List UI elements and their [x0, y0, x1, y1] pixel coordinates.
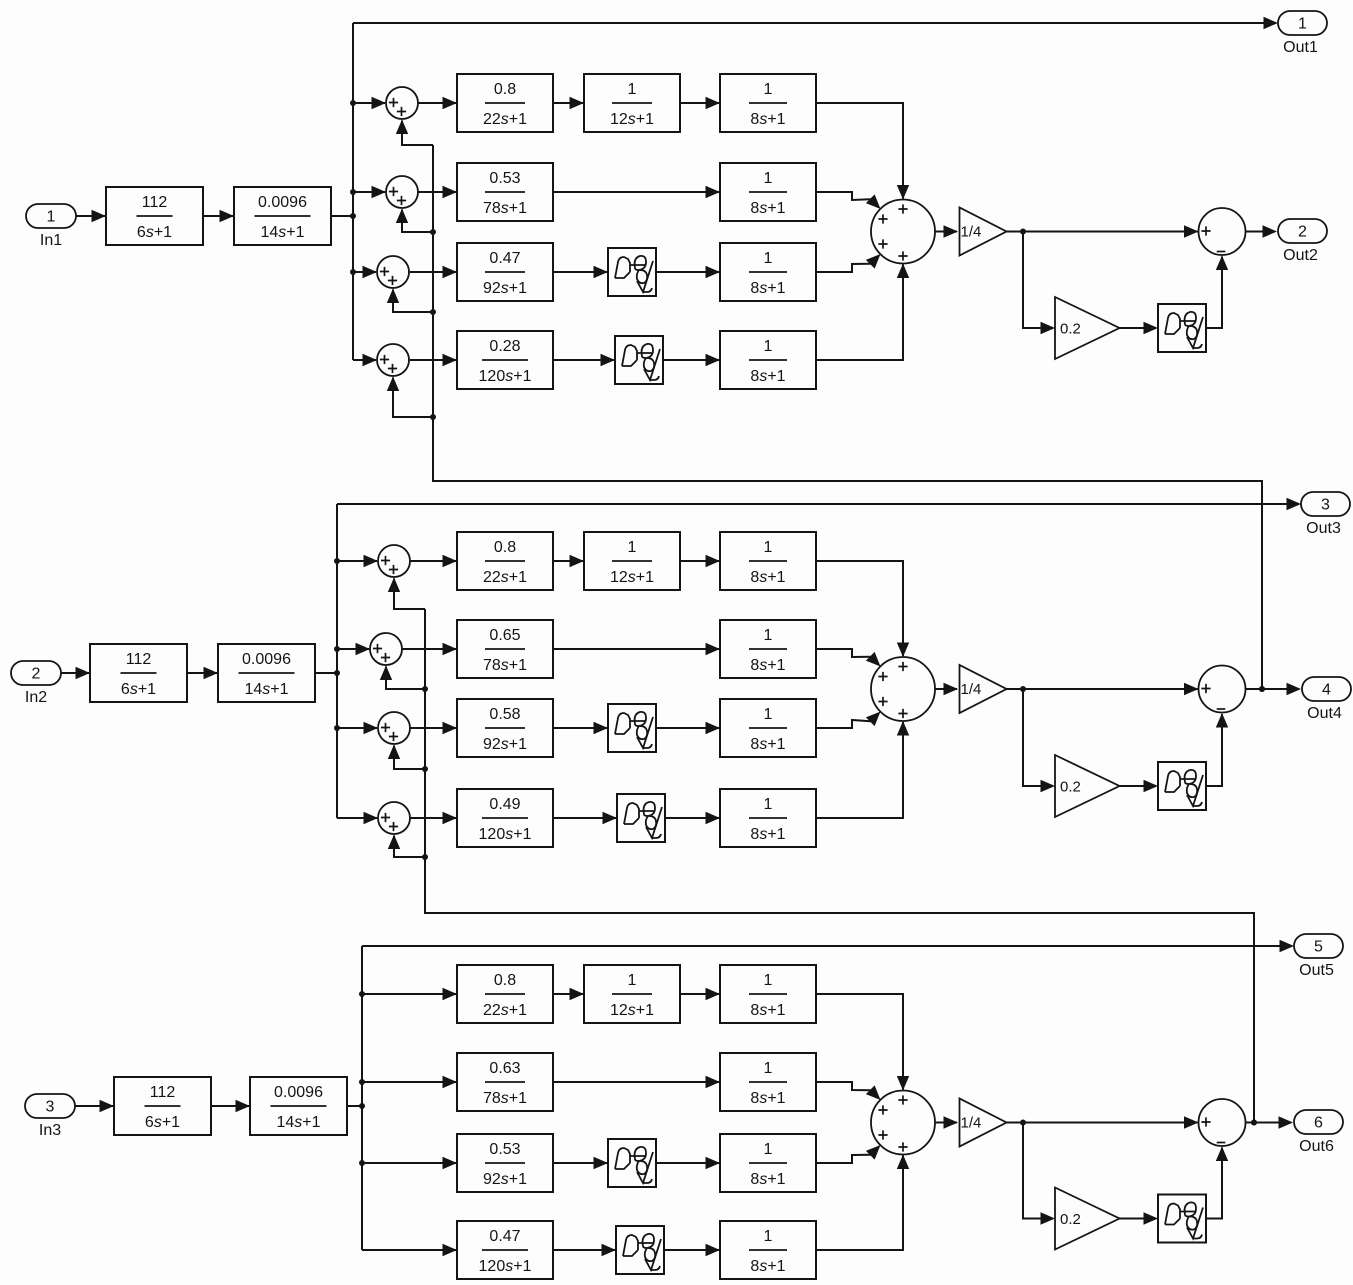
gain 1/4 [1] [960, 208, 1007, 256]
svg-text:0.47: 0.47 [489, 1228, 520, 1245]
svg-text:1: 1 [1298, 16, 1307, 33]
transfer function 1/(12s+1) [1] [584, 74, 680, 132]
wire [553, 722, 608, 734]
junction [1251, 1120, 1257, 1126]
svg-text:0.8: 0.8 [494, 539, 516, 556]
transfer function 1/(8s+1) [3] [720, 1053, 816, 1111]
svg-text:Out6: Out6 [1299, 1138, 1334, 1155]
saturation [1.4] [615, 336, 663, 384]
saturation out [3] [1158, 1195, 1206, 1243]
svg-text:1: 1 [764, 1060, 773, 1077]
wire [362, 1076, 457, 1088]
wire [402, 643, 457, 655]
junction [359, 1160, 365, 1166]
svg-text:1: 1 [47, 209, 56, 226]
transfer function 1/(8s+1) [2] [720, 699, 816, 757]
wire [353, 266, 377, 278]
svg-text:6s+1: 6s+1 [137, 224, 172, 241]
output sum [1] [1199, 208, 1246, 255]
wire [418, 97, 457, 109]
wire [680, 555, 720, 567]
transfer function 0.49/(120s+1) [2] [457, 789, 553, 847]
output port Out2 [1278, 219, 1327, 264]
junction [422, 854, 428, 860]
svg-text:120s+1: 120s+1 [479, 368, 532, 385]
transfer function 0.53/(78s+1) [1] [457, 163, 553, 221]
sum [1.2] [386, 176, 418, 208]
output sum [2] [1199, 666, 1246, 713]
wire [388, 745, 425, 770]
saturation [3.4] [616, 1226, 664, 1274]
transfer function 0.58/(92s+1) [2] [457, 699, 553, 757]
svg-text:92s+1: 92s+1 [483, 1171, 527, 1188]
svg-text:0.8: 0.8 [494, 972, 516, 989]
wire [387, 289, 433, 313]
svg-text:In1: In1 [40, 232, 62, 249]
svg-text:0.58: 0.58 [489, 706, 520, 723]
wire [388, 835, 425, 858]
sum [2.4] [378, 802, 410, 834]
wire [816, 192, 885, 213]
output port Out5 [1294, 934, 1343, 979]
svg-text:0.63: 0.63 [489, 1060, 520, 1077]
transfer function 1/(8s+1) [2] [720, 789, 816, 847]
wire [1023, 1123, 1055, 1225]
sum of paths [3] [871, 1091, 935, 1155]
transfer function 0.53/(92s+1) [3] [457, 1134, 553, 1192]
wire [410, 555, 457, 567]
junction [334, 646, 340, 652]
saturation [2.3] [608, 704, 656, 752]
wire [203, 210, 234, 222]
wire [553, 643, 720, 655]
sum [1.4] [377, 344, 409, 376]
output port Out3 [1301, 492, 1350, 537]
wire [935, 225, 958, 237]
wire [935, 683, 958, 695]
junction [359, 1103, 365, 1109]
wire [353, 186, 386, 198]
svg-text:0.0096: 0.0096 [242, 651, 291, 668]
wire [664, 1244, 720, 1256]
svg-text:1: 1 [764, 706, 773, 723]
gain 0.2 [1] [1055, 297, 1120, 359]
wire [816, 721, 909, 818]
wire [553, 266, 608, 278]
svg-text:1/4: 1/4 [961, 1115, 982, 1132]
svg-text:78s+1: 78s+1 [483, 1090, 527, 1107]
junction [1259, 686, 1265, 692]
svg-text:In3: In3 [39, 1122, 61, 1139]
output sum [3] [1199, 1099, 1246, 1146]
junction [430, 229, 436, 235]
svg-text:1: 1 [764, 170, 773, 187]
wire [337, 498, 1301, 510]
transfer function 0.0096/(14s+1) [2] [218, 644, 315, 702]
svg-text:0.8: 0.8 [494, 81, 516, 98]
wire [1007, 1116, 1199, 1128]
wire [553, 1157, 608, 1169]
svg-text:8s+1: 8s+1 [750, 200, 785, 217]
wire [680, 988, 720, 1000]
svg-text:1: 1 [764, 81, 773, 98]
svg-text:1: 1 [628, 539, 637, 556]
svg-text:Out3: Out3 [1306, 520, 1341, 537]
svg-text:120s+1: 120s+1 [479, 826, 532, 843]
svg-text:8s+1: 8s+1 [750, 368, 785, 385]
wire [1120, 1212, 1159, 1224]
svg-text:8s+1: 8s+1 [750, 111, 785, 128]
wire [331, 215, 353, 217]
svg-text:Out4: Out4 [1307, 705, 1342, 722]
wire [816, 103, 909, 200]
svg-text:Out5: Out5 [1299, 962, 1334, 979]
sum of paths [2] [871, 657, 935, 721]
svg-text:2: 2 [32, 666, 41, 683]
wire [353, 97, 386, 109]
wire [1206, 256, 1228, 329]
transfer function 0.0096/(14s+1) [3] [250, 1077, 347, 1135]
svg-text:6s+1: 6s+1 [145, 1114, 180, 1131]
wire [76, 210, 106, 222]
wire [388, 578, 425, 610]
output port Out6 [1294, 1110, 1343, 1155]
input port In3 [25, 1094, 75, 1139]
wire [1246, 683, 1302, 695]
wire [935, 1116, 958, 1128]
wire [1206, 713, 1228, 786]
junction [1020, 1120, 1026, 1126]
svg-text:22s+1: 22s+1 [483, 569, 527, 586]
transfer function 112/(6s+1) [3] [114, 1077, 211, 1135]
svg-text:78s+1: 78s+1 [483, 657, 527, 674]
transfer function 0.8/(22s+1) [3] [457, 965, 553, 1023]
wire [816, 264, 909, 361]
svg-text:1: 1 [764, 972, 773, 989]
wire [553, 97, 584, 109]
saturation [1.3] [608, 248, 656, 296]
transfer function 1/(8s+1) [3] [720, 965, 816, 1023]
transfer function 0.8/(22s+1) [1] [457, 74, 553, 132]
sum [2.1] [378, 545, 410, 577]
junction [1251, 1120, 1257, 1126]
wire [353, 354, 377, 366]
svg-text:2: 2 [1298, 224, 1307, 241]
wire [387, 377, 433, 418]
svg-text:112: 112 [126, 651, 152, 668]
transfer function 0.0096/(14s+1) [1] [234, 187, 331, 245]
svg-text:8s+1: 8s+1 [750, 569, 785, 586]
svg-text:0.2: 0.2 [1060, 779, 1081, 796]
svg-text:92s+1: 92s+1 [483, 280, 527, 297]
sum [1.1] [386, 87, 418, 119]
svg-text:1: 1 [764, 539, 773, 556]
junction [422, 766, 428, 772]
wire [362, 1157, 457, 1169]
svg-text:1: 1 [628, 81, 637, 98]
transfer function 0.65/(78s+1) [2] [457, 620, 553, 678]
wire [337, 555, 378, 567]
wire [433, 145, 1262, 689]
svg-text:1: 1 [628, 972, 637, 989]
junction [350, 100, 356, 106]
saturation [2.4] [617, 794, 665, 842]
wire [1246, 1116, 1294, 1128]
wire [656, 722, 720, 734]
output port Out4 [1302, 677, 1351, 722]
transfer function 1/(12s+1) [3] [584, 965, 680, 1023]
wire [680, 97, 720, 109]
wire [362, 1244, 457, 1256]
svg-text:1: 1 [764, 627, 773, 644]
svg-text:1: 1 [764, 1141, 773, 1158]
svg-text:22s+1: 22s+1 [483, 1002, 527, 1019]
svg-text:0.2: 0.2 [1060, 1211, 1081, 1228]
wire [816, 561, 909, 657]
transfer function 112/(6s+1) [1] [106, 187, 203, 245]
junction [334, 670, 340, 676]
gain 1/4 [2] [960, 665, 1007, 713]
wire [663, 354, 720, 366]
wire [553, 988, 584, 1000]
wire [409, 266, 457, 278]
wire [656, 266, 720, 278]
svg-text:0.28: 0.28 [489, 338, 520, 355]
wire [337, 722, 378, 734]
svg-text:8s+1: 8s+1 [750, 1002, 785, 1019]
svg-text:5: 5 [1314, 939, 1323, 956]
svg-text:14s+1: 14s+1 [260, 224, 304, 241]
input port In2 [11, 661, 61, 706]
junction [430, 309, 436, 315]
svg-text:0.0096: 0.0096 [258, 194, 307, 211]
wire [553, 1244, 616, 1256]
junction [1259, 686, 1265, 692]
transfer function 1/(8s+1) [1] [720, 74, 816, 132]
wire [347, 1105, 362, 1107]
wire [656, 1157, 720, 1169]
svg-text:1: 1 [764, 796, 773, 813]
wire [1206, 1147, 1228, 1219]
wire [816, 994, 909, 1091]
svg-text:0.53: 0.53 [489, 1141, 520, 1158]
wire [418, 186, 457, 198]
wire [553, 186, 720, 198]
svg-text:14s+1: 14s+1 [244, 681, 288, 698]
wire [409, 354, 457, 366]
sum [2.3] [378, 712, 410, 744]
transfer function 1/(8s+1) [3] [720, 1221, 816, 1279]
sum [2.2] [370, 633, 402, 665]
sum of paths [1] [871, 200, 935, 264]
svg-text:0.53: 0.53 [489, 170, 520, 187]
svg-text:0.2: 0.2 [1060, 321, 1081, 338]
wire [362, 988, 457, 1000]
saturation out [1] [1158, 304, 1206, 352]
wire [352, 23, 354, 360]
wire [396, 209, 433, 233]
transfer function 112/(6s+1) [2] [90, 644, 187, 702]
transfer function 0.8/(22s+1) [2] [457, 532, 553, 590]
junction [359, 1079, 365, 1085]
transfer function 0.63/(78s+1) [3] [457, 1053, 553, 1111]
wire [75, 1100, 114, 1112]
svg-text:8s+1: 8s+1 [750, 736, 785, 753]
gain 0.2 [2] [1055, 755, 1120, 817]
svg-text:6s+1: 6s+1 [121, 681, 156, 698]
wire [553, 1076, 720, 1088]
svg-text:1: 1 [764, 1228, 773, 1245]
wire [665, 812, 720, 824]
wire [553, 555, 584, 567]
junction [350, 269, 356, 275]
wire [1007, 225, 1199, 237]
transfer function 1/(8s+1) [1] [720, 243, 816, 301]
svg-text:8s+1: 8s+1 [750, 1171, 785, 1188]
svg-text:0.0096: 0.0096 [274, 1084, 323, 1101]
transfer function 0.47/(92s+1) [1] [457, 243, 553, 301]
wire [816, 1141, 885, 1163]
wire [315, 672, 337, 674]
wire [1023, 689, 1055, 792]
svg-text:1/4: 1/4 [961, 681, 982, 698]
wire [380, 666, 425, 690]
wire [337, 643, 370, 655]
transfer function 1/(8s+1) [2] [720, 620, 816, 678]
svg-text:8s+1: 8s+1 [750, 1258, 785, 1275]
transfer function 1/(12s+1) [2] [584, 532, 680, 590]
wire [353, 17, 1278, 29]
svg-text:1: 1 [764, 338, 773, 355]
wire [816, 1082, 885, 1104]
wire [1246, 225, 1278, 237]
svg-text:8s+1: 8s+1 [750, 657, 785, 674]
wire [410, 812, 457, 824]
svg-text:14s+1: 14s+1 [276, 1114, 320, 1131]
svg-text:Out2: Out2 [1283, 247, 1318, 264]
wire [1120, 322, 1159, 334]
junction [1020, 686, 1026, 692]
svg-text:In2: In2 [25, 689, 47, 706]
wire [816, 649, 885, 671]
svg-text:12s+1: 12s+1 [610, 111, 654, 128]
svg-text:8s+1: 8s+1 [750, 1090, 785, 1107]
junction [430, 414, 436, 420]
transfer function 0.28/(120s+1) [1] [457, 331, 553, 389]
wire [553, 812, 617, 824]
svg-text:112: 112 [150, 1084, 176, 1101]
wire [211, 1100, 250, 1112]
gain 1/4 [3] [960, 1099, 1007, 1147]
wire [396, 120, 433, 146]
junction [422, 686, 428, 692]
junction [334, 558, 340, 564]
junction [350, 189, 356, 195]
svg-text:92s+1: 92s+1 [483, 736, 527, 753]
wire [1023, 232, 1055, 335]
svg-text:8s+1: 8s+1 [750, 280, 785, 297]
transfer function 1/(8s+1) [2] [720, 532, 816, 590]
svg-text:22s+1: 22s+1 [483, 111, 527, 128]
junction [334, 725, 340, 731]
wire [553, 354, 615, 366]
saturation [3.3] [608, 1139, 656, 1187]
svg-text:78s+1: 78s+1 [483, 200, 527, 217]
wire [361, 946, 363, 1250]
svg-text:4: 4 [1322, 682, 1331, 699]
svg-text:0.65: 0.65 [489, 627, 520, 644]
svg-text:12s+1: 12s+1 [610, 569, 654, 586]
svg-text:0.47: 0.47 [489, 250, 520, 267]
wire [336, 504, 338, 818]
junction [359, 991, 365, 997]
sum [1.3] [377, 256, 409, 288]
wire [816, 250, 885, 272]
wire [187, 667, 218, 679]
transfer function 1/(8s+1) [1] [720, 331, 816, 389]
wire [362, 940, 1294, 952]
svg-text:3: 3 [1321, 497, 1330, 514]
svg-text:8s+1: 8s+1 [750, 826, 785, 843]
svg-text:1/4: 1/4 [961, 224, 982, 241]
svg-text:3: 3 [46, 1099, 55, 1116]
wire [425, 609, 1254, 1123]
gain 0.2 [3] [1055, 1188, 1120, 1250]
transfer function 0.47/(120s+1) [3] [457, 1221, 553, 1279]
wire [1120, 780, 1159, 792]
svg-text:Out1: Out1 [1283, 39, 1318, 56]
svg-text:12s+1: 12s+1 [610, 1002, 654, 1019]
wire [410, 722, 457, 734]
svg-text:0.49: 0.49 [489, 796, 520, 813]
wire [1007, 683, 1199, 695]
wire [337, 812, 378, 824]
svg-text:1: 1 [764, 250, 773, 267]
junction [350, 213, 356, 219]
wire [816, 707, 885, 728]
wire [816, 1155, 909, 1251]
svg-text:6: 6 [1314, 1115, 1323, 1132]
junction [1020, 229, 1026, 235]
transfer function 1/(8s+1) [3] [720, 1134, 816, 1192]
wire [61, 667, 90, 679]
saturation out [2] [1158, 762, 1206, 810]
svg-text:112: 112 [142, 194, 168, 211]
transfer function 1/(8s+1) [1] [720, 163, 816, 221]
input port In1 [26, 204, 76, 249]
output port Out1 [1278, 11, 1327, 56]
svg-text:120s+1: 120s+1 [479, 1258, 532, 1275]
